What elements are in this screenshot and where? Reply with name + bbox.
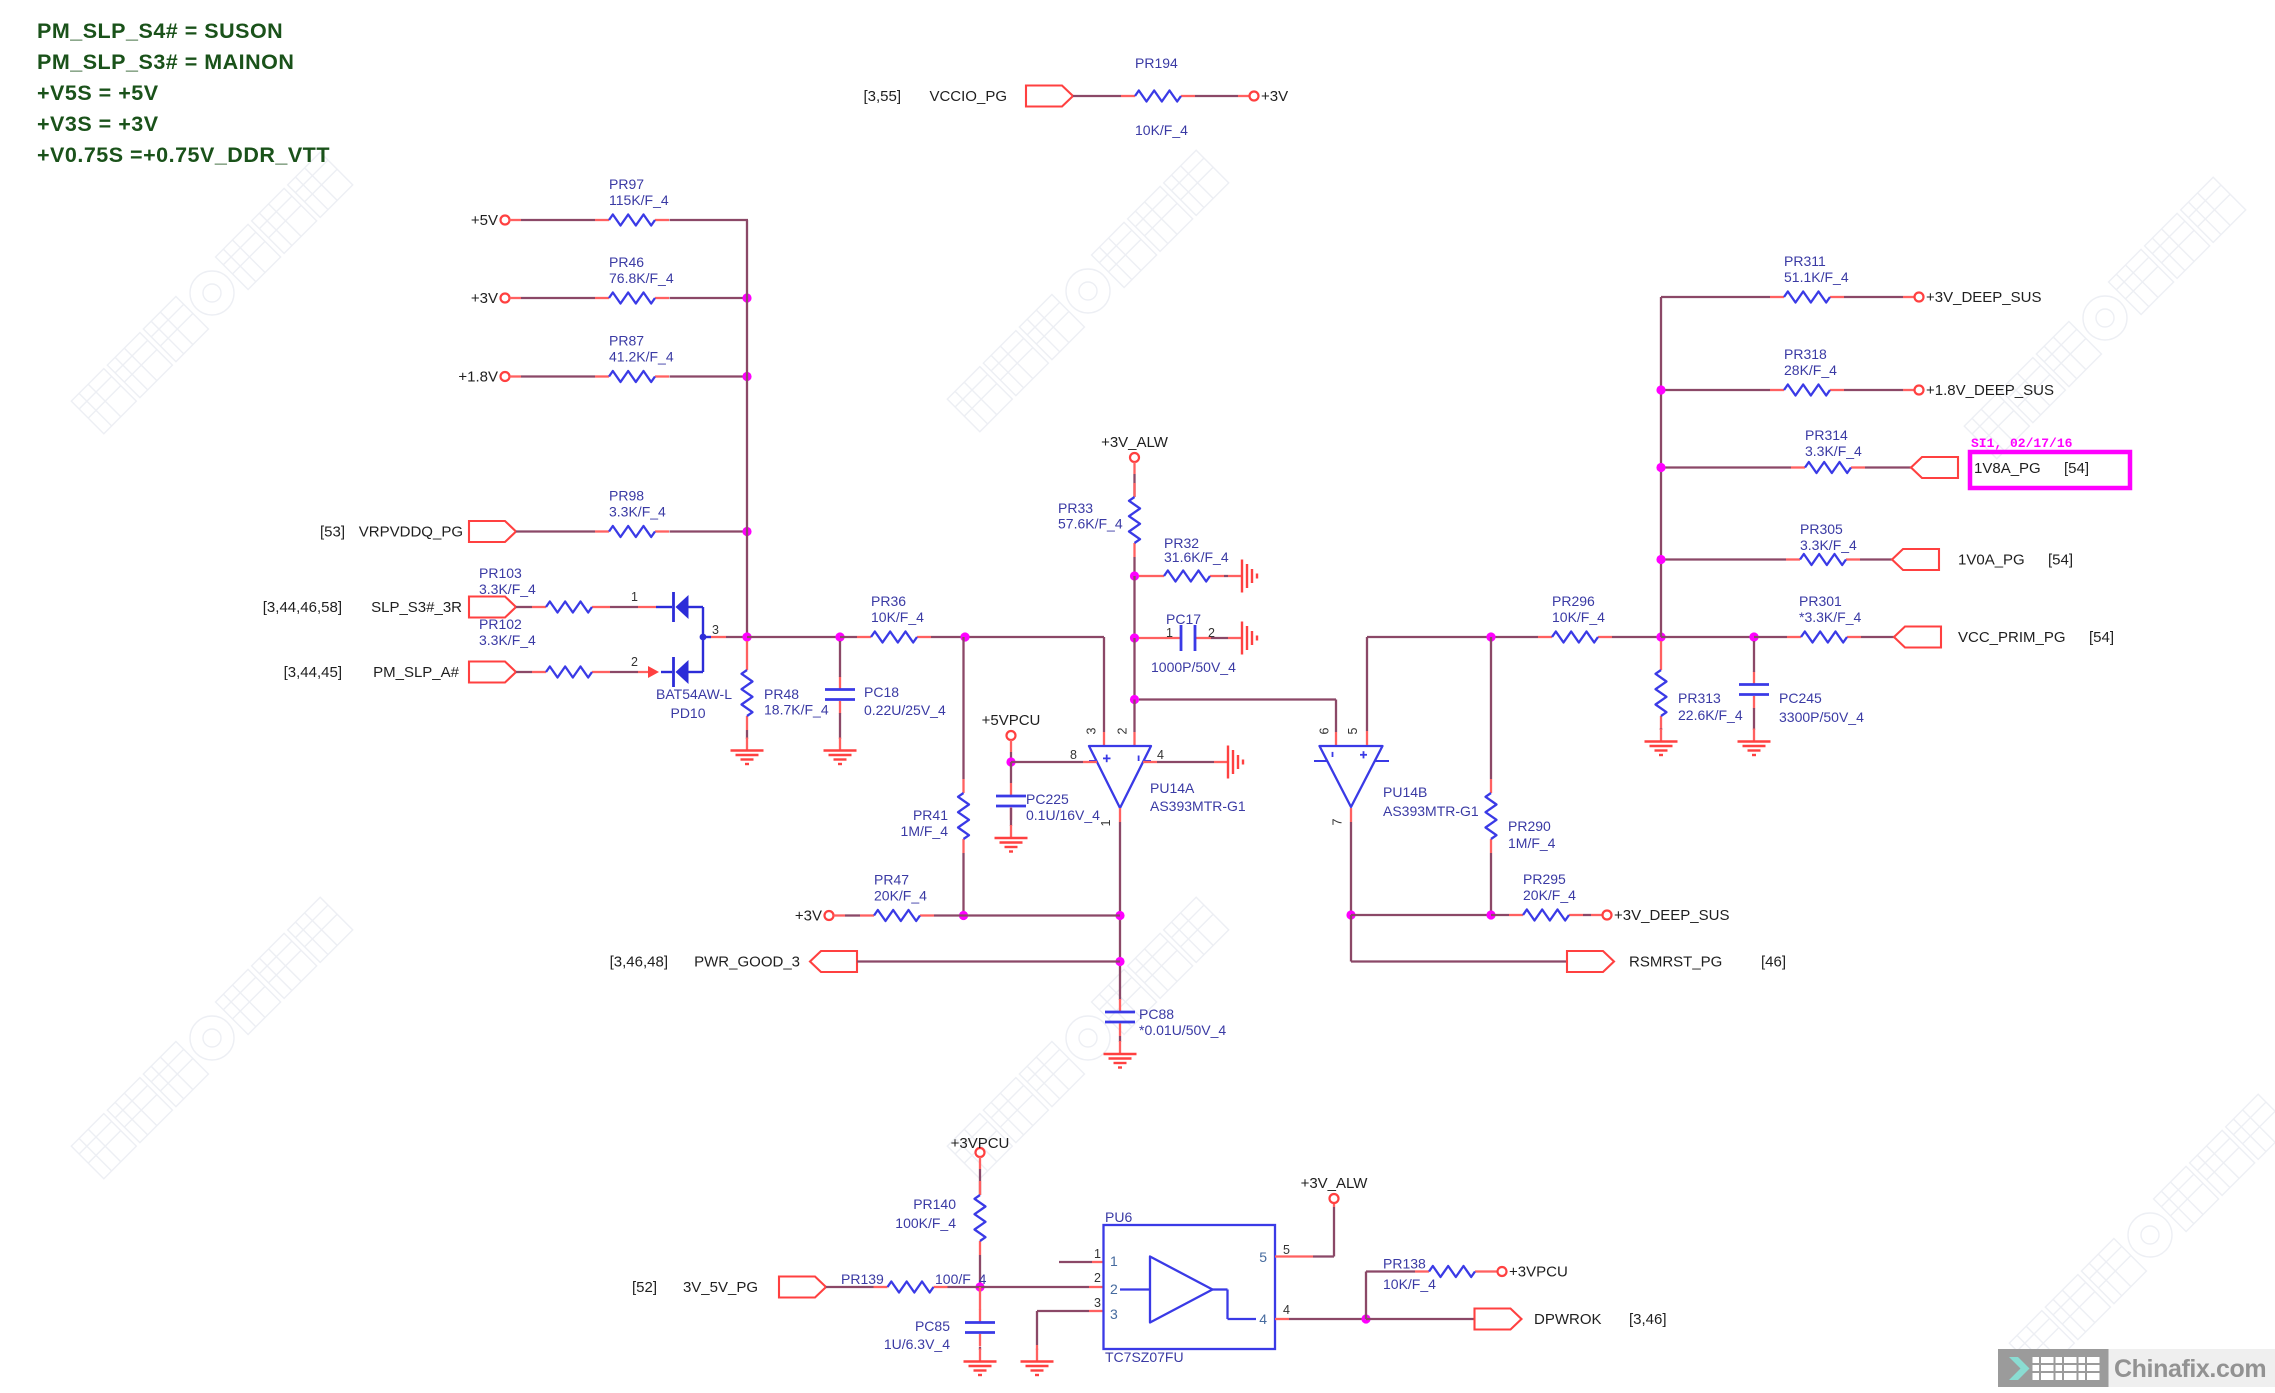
net label PWR_GOOD_3: [694, 954, 800, 971]
svg-text:PM_SLP_A#: PM_SLP_A#: [373, 664, 460, 681]
svg-text:1: 1: [1094, 1247, 1101, 1261]
junction bus bottom: [1656, 632, 1665, 641]
wire PR311 row a: [1661, 296, 1770, 298]
svg-text:2: 2: [1110, 1281, 1118, 1297]
svg-text:31.6K/F_4: 31.6K/F_4: [1164, 549, 1229, 565]
power terminal +3V_DEEP_SUS: [1603, 907, 1730, 924]
net label [3,46,48]: [610, 954, 668, 971]
resistor PR33: [1058, 483, 1140, 557]
junction PR318: [1656, 385, 1665, 394]
wire +5V: [510, 219, 596, 221]
port DPWROK: [1475, 1309, 1522, 1330]
ground PC18 gnd: [824, 738, 857, 765]
svg-text:+V5S = +5V: +V5S = +5V: [37, 81, 159, 105]
wire 3VPCU down: [979, 1157, 981, 1195]
ground PC85 gnd: [964, 1349, 997, 1376]
svg-text:[53]: [53]: [320, 524, 345, 541]
wire j to j2: [1133, 576, 1135, 638]
ground PC17 gnd: [1228, 622, 1257, 655]
svg-text:+5V: +5V: [471, 212, 498, 229]
wire PU14A out: [1119, 808, 1121, 1000]
wire row915 c: [1583, 914, 1603, 916]
wire PR314 row b: [1865, 466, 1911, 468]
op-amp U1 (PU14A): [1089, 746, 1151, 808]
wire PC245 top: [1753, 641, 1755, 672]
wire row915 b: [1491, 914, 1509, 916]
wire ALW down: [1133, 462, 1135, 497]
wire to PU14B pin6: [1139, 700, 1336, 746]
svg-text:1000P/50V_4: 1000P/50V_4: [1151, 659, 1236, 675]
resistor PR314: [1791, 427, 1865, 473]
wire PR47 a: [834, 914, 861, 916]
wire PC88 to gnd: [1119, 1036, 1121, 1042]
resistor PR48: [742, 656, 829, 730]
svg-text:6: 6: [1318, 727, 1332, 734]
svg-text:PR48: PR48: [764, 686, 799, 702]
net label RSMRST_PG: [1629, 954, 1722, 971]
label PU6: [1105, 1209, 1184, 1365]
Chinafix logo: [1998, 1349, 2275, 1387]
resistor PR103: [479, 565, 606, 613]
junction PC17: [1130, 633, 1139, 642]
resistor PR41: [901, 779, 969, 853]
pin 5 label: [1346, 727, 1360, 734]
svg-text:3300P/50V_4: 3300P/50V_4: [1779, 709, 1864, 725]
wire PC85 top: [979, 1287, 981, 1310]
svg-text:20K/F_4: 20K/F_4: [1523, 887, 1576, 903]
wire PR138 term: [1489, 1270, 1498, 1272]
svg-text:PR140: PR140: [913, 1196, 956, 1212]
junction out b: [1115, 957, 1124, 966]
ground PR313 gnd: [1645, 729, 1678, 756]
wire row915 a: [1351, 914, 1491, 916]
wire PR102 to D2: [606, 671, 656, 673]
wire PR305 row a: [1661, 558, 1786, 560]
red arrow pin 2: [648, 666, 659, 678]
pin 3 label PU6: [1094, 1296, 1101, 1310]
svg-text:+3V_DEEP_SUS: +3V_DEEP_SUS: [1926, 289, 2041, 306]
junction PR314: [1656, 463, 1665, 472]
svg-text:10K/F_4: 10K/F_4: [871, 609, 924, 625]
junction PR305: [1656, 555, 1665, 564]
resistor PR32: [1150, 535, 1229, 582]
pin 5 label PU6: [1283, 1243, 1290, 1257]
power terminal +5V: [471, 212, 510, 229]
wire pin2 vertical: [1133, 700, 1135, 746]
svg-text:PR41: PR41: [913, 807, 948, 823]
label 100/F_4: [935, 1271, 987, 1287]
resistor PR36: [857, 593, 931, 643]
resistor PR295: [1509, 871, 1583, 921]
port 1V8A_PG: [1911, 457, 1958, 478]
junction PC245: [1749, 632, 1758, 641]
svg-text:1M/F_4: 1M/F_4: [901, 823, 949, 839]
svg-text:PR47: PR47: [874, 872, 909, 888]
svg-text:3.3K/F_4: 3.3K/F_4: [479, 581, 536, 597]
svg-text:Chinafix.com: Chinafix.com: [2114, 1355, 2266, 1383]
svg-text:PC225: PC225: [1026, 791, 1069, 807]
svg-text:[3,46]: [3,46]: [1629, 1311, 1667, 1328]
wire SLP_S3#_3R: [516, 606, 532, 608]
svg-text:28K/F_4: 28K/F_4: [1784, 362, 1837, 378]
svg-text:76.8K/F_4: 76.8K/F_4: [609, 270, 674, 286]
wire node3 to bus: [726, 636, 747, 638]
svg-text:[52]: [52]: [632, 1279, 657, 1296]
svg-text:[54]: [54]: [2048, 552, 2073, 569]
wire pin5 PU6: [1275, 1203, 1334, 1257]
net label VCCIO_PG: [929, 88, 1007, 105]
resistor PR87: [595, 333, 674, 383]
svg-text:PR138: PR138: [1383, 1256, 1426, 1272]
diode D1 (BAT54AW-L): [656, 592, 703, 622]
wire row637 a: [1612, 636, 1661, 638]
wire pin3 vertical: [1103, 637, 1105, 745]
svg-text:VRPVDDQ_PG: VRPVDDQ_PG: [359, 524, 463, 541]
svg-text:51.1K/F_4: 51.1K/F_4: [1784, 269, 1849, 285]
wire diode common: [700, 607, 726, 672]
svg-text:+V0.75S =+0.75V_DDR_VTT: +V0.75S =+0.75V_DDR_VTT: [37, 143, 330, 167]
svg-text:PU6: PU6: [1105, 1209, 1132, 1225]
svg-text:0.22U/25V_4: 0.22U/25V_4: [864, 702, 946, 718]
wire node row b: [840, 636, 857, 638]
pin 1 label: [631, 590, 638, 604]
wire PR318 row a: [1661, 389, 1770, 391]
net label [54] a: [2064, 460, 2089, 477]
net label [52]: [632, 1279, 657, 1296]
port VCC_PRIM_PG: [1894, 627, 1941, 648]
svg-text:3.3K/F_4: 3.3K/F_4: [479, 632, 536, 648]
net label VCC_PRIM_PG: [1958, 629, 2066, 646]
net label PM_SLP_A#: [373, 664, 460, 681]
wire PC18 to gnd: [839, 713, 841, 739]
junction PR32: [1130, 571, 1139, 580]
pin 2 label PC17: [1208, 626, 1215, 640]
pin 7 label: [1331, 818, 1345, 825]
svg-text:PC17: PC17: [1166, 611, 1201, 627]
highlight box: [1970, 452, 2130, 488]
svg-text:1: 1: [1166, 626, 1173, 640]
svg-text:AS393MTR-G1: AS393MTR-G1: [1383, 803, 1479, 819]
svg-text:PR318: PR318: [1784, 346, 1827, 362]
svg-text:PU14B: PU14B: [1383, 784, 1427, 800]
svg-text:PM_SLP_S4# = SUSON: PM_SLP_S4# = SUSON: [37, 19, 283, 43]
wire PR314 row a: [1661, 466, 1791, 468]
wire PR87 to bus: [670, 375, 748, 377]
svg-text:5: 5: [1283, 1243, 1290, 1257]
junction pin7: [1346, 910, 1355, 919]
pin labels PU6 inner: [1110, 1249, 1267, 1327]
wire PR313 to gnd: [1660, 728, 1662, 730]
net label VRPVDDQ_PG: [359, 524, 463, 541]
wire PR313 top: [1660, 641, 1662, 656]
wire PR47 b: [934, 914, 1120, 916]
wire PR41 top: [962, 637, 964, 779]
svg-text:BAT54AW-L: BAT54AW-L: [656, 686, 732, 702]
junction PR41: [960, 632, 969, 641]
label 10K/F_4 PR138: [1383, 1276, 1436, 1292]
svg-text:PWR_GOOD_3: PWR_GOOD_3: [694, 954, 800, 971]
svg-text:DPWROK: DPWROK: [1534, 1311, 1602, 1328]
wire 5VPCU down: [1010, 740, 1012, 762]
wire PC18 top: [839, 641, 841, 677]
svg-text:5: 5: [1346, 727, 1360, 734]
svg-text:PR296: PR296: [1552, 593, 1595, 609]
wire PR194 to +3V: [1195, 95, 1250, 97]
svg-text:1M/F_4: 1M/F_4: [1508, 835, 1556, 851]
svg-text:1V0A_PG: 1V0A_PG: [1958, 552, 2025, 569]
wire PR32 to gnd: [1224, 575, 1228, 577]
wire PR140 bot: [979, 1255, 981, 1287]
svg-text:PR139: PR139: [841, 1271, 884, 1287]
svg-text:3: 3: [1094, 1296, 1101, 1310]
net label 1V0A_PG: [1958, 552, 2025, 569]
svg-text:*3.3K/F_4: *3.3K/F_4: [1799, 609, 1861, 625]
wire node row a: [747, 636, 840, 638]
pin 6 label: [1318, 727, 1332, 734]
pin 8 label: [1070, 748, 1077, 762]
note text: [37, 19, 330, 167]
wire PR33 to j: [1133, 557, 1135, 576]
wire PC17 to gnd: [1211, 637, 1228, 639]
svg-text:VCCIO_PG: VCCIO_PG: [929, 88, 1007, 105]
wire PM_SLP_A#: [516, 671, 532, 673]
wire PR290 top: [1490, 637, 1492, 779]
svg-text:1: 1: [1110, 1253, 1118, 1269]
svg-text:AS393MTR-G1: AS393MTR-G1: [1150, 798, 1246, 814]
ground pin3 gnd: [1021, 1349, 1054, 1376]
wire pin1 stub: [1059, 1261, 1103, 1263]
svg-text:+3V: +3V: [471, 290, 498, 307]
svg-text:VCC_PRIM_PG: VCC_PRIM_PG: [1958, 629, 2066, 646]
net label DPWROK: [1534, 1311, 1602, 1328]
junction PR47: [959, 911, 968, 920]
svg-text:PR97: PR97: [609, 176, 644, 192]
resistor PR46: [595, 254, 674, 304]
resistor PR318: [1770, 346, 1844, 396]
svg-text:+V3S = +3V: +V3S = +3V: [37, 112, 159, 136]
capacitor PC17: [1165, 625, 1211, 651]
svg-text:1U/6.3V_4: 1U/6.3V_4: [884, 1336, 950, 1352]
resistor PR194: [1121, 55, 1195, 138]
net label [3,46]: [1629, 1311, 1667, 1328]
svg-text:PR102: PR102: [479, 616, 522, 632]
svg-text:2: 2: [1116, 727, 1130, 734]
svg-text:3: 3: [1085, 727, 1099, 734]
svg-text:1: 1: [631, 590, 638, 604]
resistor PR47: [860, 872, 934, 922]
power terminal +3V: [471, 290, 510, 307]
junction to PU14B: [1130, 695, 1139, 704]
junction PC18: [835, 632, 844, 641]
junction PR290 bottom: [1486, 910, 1495, 919]
svg-text:4: 4: [1283, 1303, 1290, 1317]
buffer U3 (PU6): [1104, 1225, 1276, 1349]
net label [53]: [320, 524, 345, 541]
wire PR305 row b: [1860, 558, 1892, 560]
wire DPWROK: [1366, 1318, 1475, 1320]
wire pin4 PU6: [1275, 1318, 1366, 1320]
junction: [742, 293, 751, 302]
svg-text:RSMRST_PG: RSMRST_PG: [1629, 954, 1722, 971]
svg-text:PM_SLP_S3# = MAINON: PM_SLP_S3# = MAINON: [37, 50, 294, 74]
net label [54] b: [2048, 552, 2073, 569]
ground PR32 gnd: [1228, 560, 1257, 593]
wire PR48 top: [746, 641, 748, 656]
svg-text:1V8A_PG: 1V8A_PG: [1974, 460, 2041, 477]
svg-text:3: 3: [712, 623, 719, 637]
svg-text:PR311: PR311: [1784, 253, 1826, 269]
svg-text:PD10: PD10: [670, 705, 705, 721]
wire PR103 to D1: [606, 606, 656, 608]
net label [54] c: [2089, 629, 2114, 646]
net label [3,44,46,58]: [263, 599, 342, 616]
power terminal +5VPCU: [982, 712, 1041, 740]
junction PR290 top: [1486, 632, 1495, 641]
svg-text:4: 4: [1259, 1311, 1267, 1327]
resistor PR305: [1786, 521, 1860, 565]
resistor PR139: [841, 1271, 948, 1293]
svg-text:+5VPCU: +5VPCU: [982, 712, 1041, 729]
svg-text:22.6K/F_4: 22.6K/F_4: [1678, 707, 1743, 723]
wire row637 d: [1861, 636, 1894, 638]
wire PR32 stub: [1139, 575, 1150, 577]
svg-text:57.6K/F_4: 57.6K/F_4: [1058, 516, 1123, 532]
svg-text:PR313: PR313: [1678, 690, 1721, 706]
wire pin2 PU6: [948, 1286, 1104, 1288]
power terminal +3VPCU: [951, 1135, 1010, 1157]
label PU14A: [1150, 780, 1246, 814]
resistor PR98: [595, 488, 669, 538]
svg-text:3.3K/F_4: 3.3K/F_4: [609, 504, 666, 520]
wire RSMRST: [1351, 915, 1567, 962]
wire bus right vertical: [1660, 297, 1662, 637]
svg-text:PR33: PR33: [1058, 500, 1093, 516]
pin 2 label PU14A: [1116, 727, 1130, 734]
pin 1 label PU6: [1094, 1247, 1101, 1261]
svg-text:+3V: +3V: [1261, 88, 1288, 105]
svg-text:PR290: PR290: [1508, 818, 1551, 834]
power terminal +3V_ALW: [1301, 1175, 1369, 1203]
op-amp U2 (PU14B): [1314, 746, 1389, 807]
junction DPWROK: [1361, 1314, 1370, 1323]
wire PR98 to bus: [670, 530, 748, 532]
svg-text:+3V_DEEP_SUS: +3V_DEEP_SUS: [1614, 907, 1729, 924]
wire PC225 to gnd: [1010, 808, 1012, 826]
svg-text:PR295: PR295: [1523, 871, 1566, 887]
svg-text:7: 7: [1331, 818, 1345, 825]
wire node row c: [931, 636, 1104, 638]
resistor PR301: [1787, 593, 1861, 643]
port 1V0A_PG: [1892, 549, 1939, 570]
svg-text:PR103: PR103: [479, 565, 522, 581]
node 3 label: [712, 623, 719, 637]
wire PC245 to gnd: [1753, 708, 1755, 730]
resistor PR140: [895, 1181, 985, 1255]
label PC17: [1151, 611, 1236, 675]
port PM_SLP_A#: [469, 662, 516, 683]
net label 3V_5V_PG: [683, 1279, 758, 1296]
svg-text:0.1U/16V_4: 0.1U/16V_4: [1026, 807, 1100, 823]
svg-text:PR194: PR194: [1135, 55, 1178, 71]
resistor PR97: [595, 176, 669, 226]
label PU14B: [1383, 784, 1479, 819]
wire j2 to j3: [1133, 638, 1135, 700]
wire PWR_GOOD_3: [857, 960, 1120, 962]
svg-text:*0.01U/50V_4: *0.01U/50V_4: [1139, 1022, 1226, 1038]
junction: [742, 372, 751, 381]
wire +1.8V: [510, 375, 596, 377]
wire PC225 top: [1010, 762, 1012, 783]
capacitor PC18: [825, 677, 946, 719]
wire PR46 to bus: [670, 297, 748, 299]
svg-text:41.2K/F_4: 41.2K/F_4: [609, 349, 674, 365]
pin 1 label PU14A: [1099, 819, 1113, 826]
wire PR318 b: [1844, 389, 1915, 391]
wire VCCIO_PG: [1073, 95, 1121, 97]
svg-text:PC18: PC18: [864, 684, 899, 700]
svg-text:PC88: PC88: [1139, 1006, 1174, 1022]
diode D2 (BAT54AW-L): [661, 657, 703, 687]
svg-text:+3V: +3V: [795, 908, 822, 925]
ground PC225 gnd: [995, 825, 1028, 852]
capacitor PC245: [1739, 672, 1864, 726]
pin 4 label: [1157, 748, 1164, 762]
wire pin3 PU6: [1037, 1311, 1103, 1350]
svg-text:3.3K/F_4: 3.3K/F_4: [1800, 537, 1857, 553]
wire row637 b: [1661, 636, 1754, 638]
port VRPVDDQ_PG: [469, 521, 516, 542]
svg-text:5: 5: [1259, 1249, 1267, 1265]
resistor PR290: [1486, 779, 1556, 853]
svg-text:3: 3: [1110, 1306, 1118, 1322]
power terminal +3V_ALW: [1101, 434, 1169, 462]
svg-text:PC245: PC245: [1779, 690, 1822, 706]
port RSMRST_PG: [1567, 951, 1614, 972]
svg-text:PR98: PR98: [609, 488, 644, 504]
port SLP_S3#_3R: [469, 597, 516, 618]
wire PR48 to gnd: [746, 730, 748, 739]
wire pin7: [1350, 808, 1352, 915]
pin 2 label: [631, 655, 638, 669]
power terminal +1.8V: [458, 369, 509, 386]
svg-text:3.3K/F_4: 3.3K/F_4: [1805, 443, 1862, 459]
svg-text:3V_5V_PG: 3V_5V_PG: [683, 1279, 758, 1296]
wire PR290 bot: [1490, 853, 1492, 915]
svg-text:2: 2: [631, 655, 638, 669]
wire pin5: [1367, 637, 1538, 745]
power terminal +3V: [1250, 88, 1289, 105]
capacitor PC85: [884, 1310, 995, 1353]
resistor PR311: [1770, 253, 1849, 303]
pin 3 label: [1085, 727, 1099, 734]
wire PC17 stub: [1139, 637, 1165, 639]
svg-text:PR87: PR87: [609, 333, 644, 349]
svg-text:[54]: [54]: [2089, 629, 2114, 646]
power terminal +1.8V_DEEP_SUS: [1915, 382, 2055, 399]
pin 2 label PU6: [1094, 1271, 1101, 1285]
svg-text:PU14A: PU14A: [1150, 780, 1195, 796]
ground PC245 gnd: [1738, 729, 1771, 756]
capacitor PC88: [1105, 999, 1226, 1038]
wire PR97 to bus: [670, 219, 749, 221]
svg-text:PR301: PR301: [1799, 593, 1842, 609]
power terminal +3VPCU: [1498, 1264, 1568, 1281]
resistor PR102: [479, 616, 606, 678]
svg-text:[3,46,48]: [3,46,48]: [610, 954, 668, 971]
wire pin8: [1011, 761, 1097, 763]
ground PR48 gnd: [731, 738, 764, 765]
svg-text:PR46: PR46: [609, 254, 644, 270]
